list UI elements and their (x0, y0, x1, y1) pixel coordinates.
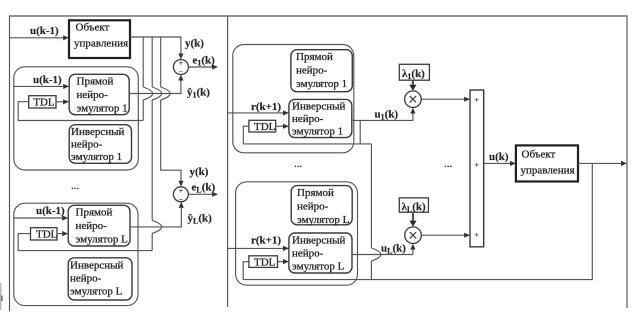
svg-text:−: − (179, 68, 184, 77)
svg-text:эмулятор L: эмулятор L (297, 214, 350, 226)
svg-text:Прямой: Прямой (76, 207, 113, 219)
svg-text:эмулятор L: эмулятор L (76, 233, 129, 245)
svg-text:+: + (475, 96, 480, 105)
svg-text:Прямой: Прямой (296, 51, 333, 63)
svg-text:y(k): y(k) (190, 166, 209, 178)
svg-text:Объект: Объект (76, 22, 110, 34)
svg-text:управления: управления (74, 38, 128, 50)
svg-text:λL(k): λL(k) (402, 201, 427, 214)
svg-text:эмулятор 1: эмулятор 1 (292, 126, 343, 138)
svg-text:Инверсный: Инверсный (71, 126, 125, 138)
svg-text:нейро-: нейро- (297, 200, 329, 212)
svg-text:Инверсный: Инверсный (292, 101, 346, 113)
svg-text:Инверсный: Инверсный (292, 235, 346, 247)
svg-text:...: ... (444, 158, 453, 170)
svg-text:эмулятор 1: эмулятор 1 (77, 102, 128, 114)
svg-text:TDL: TDL (254, 257, 276, 269)
svg-text:эмулятор L: эмулятор L (292, 261, 345, 273)
svg-text:эмулятор L: эмулятор L (70, 285, 123, 297)
svg-text:u(k-1): u(k-1) (36, 205, 65, 217)
svg-text:r(k+1): r(k+1) (251, 235, 281, 247)
svg-text:нейро-: нейро- (292, 113, 324, 125)
svg-text:e1(k): e1(k) (193, 55, 216, 68)
svg-text:u(k): u(k) (489, 151, 509, 163)
svg-text:Прямой: Прямой (297, 187, 334, 199)
svg-text:eL(k): eL(k) (192, 182, 216, 195)
svg-text:ŷ1(k): ŷ1(k) (187, 87, 210, 100)
svg-text:нейро-: нейро- (71, 139, 103, 151)
svg-text:λ1(k): λ1(k) (402, 68, 425, 81)
svg-text:эмулятор 1: эмулятор 1 (71, 151, 122, 163)
svg-text:Объект: Объект (522, 149, 556, 161)
svg-text:TDL: TDL (254, 121, 276, 133)
svg-text:нейро-: нейро- (76, 220, 108, 232)
svg-text:нейро-: нейро- (292, 248, 324, 260)
svg-text:...: ... (294, 158, 303, 170)
svg-text:Инверсный: Инверсный (70, 259, 124, 271)
svg-text:u1(k): u1(k) (375, 109, 399, 122)
svg-text:Прямой: Прямой (77, 76, 114, 88)
svg-text:нейро-: нейро- (77, 89, 109, 101)
svg-text:r(k+1): r(k+1) (251, 101, 281, 113)
svg-text:нейро-: нейро- (70, 272, 102, 284)
svg-text:uL(k): uL(k) (381, 243, 406, 256)
svg-text:+: + (475, 231, 480, 240)
svg-text:TDL: TDL (36, 229, 58, 241)
svg-text:u(k-1): u(k-1) (33, 74, 62, 86)
svg-text:нейро-: нейро- (296, 64, 328, 76)
svg-text:TDL: TDL (33, 97, 55, 109)
svg-text:управления: управления (521, 165, 575, 177)
svg-text:+: + (475, 161, 480, 170)
svg-text:−: − (179, 195, 184, 204)
svg-text:...: ... (71, 180, 80, 192)
svg-text:u(k-1): u(k-1) (30, 25, 59, 37)
svg-text:y(k): y(k) (185, 38, 204, 50)
svg-text:эмулятор 1: эмулятор 1 (296, 78, 347, 90)
svg-text:ŷL(k): ŷL(k) (188, 213, 213, 226)
